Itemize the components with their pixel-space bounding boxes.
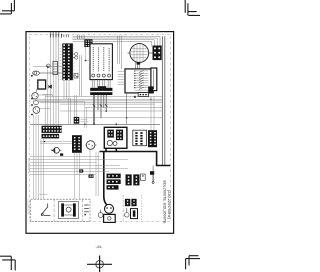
fuse F1 flag [150, 171, 154, 183]
dashed line right sub [141, 195, 143, 220]
double feeder wires right side [162, 36, 164, 166]
panel vertical label column 4 [108, 48, 110, 72]
stacked connector CN9 [107, 185, 119, 189]
battery thick cable [100, 148, 171, 204]
relay K1 [36, 80, 45, 92]
wire bundle left vertical [34, 115, 44, 199]
relay K3 [131, 199, 136, 206]
panel vertical label column 1 [92, 47, 94, 72]
ladder slash contacts [139, 70, 144, 89]
regulator box with ladder [125, 69, 153, 93]
engine sub-box label [40, 193, 48, 195]
breather circle E2 [125, 208, 130, 217]
relay K2 [125, 199, 130, 206]
wire horn feed [33, 66, 62, 68]
terminal ladder rows [135, 71, 149, 90]
junction dots on bus [84, 99, 152, 126]
oil pump OP [52, 147, 62, 153]
riser wires to CN6 [151, 96, 154, 130]
crop mark bottom-left [0, 256, 15, 270]
fuel pump FP [104, 204, 116, 222]
svg-text:-44-: -44- [95, 244, 103, 249]
connector CN3 [42, 126, 62, 133]
rectifier narrow box [148, 68, 157, 93]
ignition coil T1 [59, 202, 79, 219]
wire mesh center horizontal [33, 95, 162, 124]
wire harness CN1 to right (nested L runs) [73, 36, 161, 46]
crop mark top-right [185, 0, 200, 15]
inline connector a [79, 169, 83, 172]
module M1 labels [81, 118, 89, 122]
oil switch S1 [41, 204, 51, 216]
connector CN2 [153, 46, 162, 61]
wire pair right of CN1 [80, 55, 82, 96]
wire stubs above relay RY1 [78, 35, 85, 39]
wires near oil pump [40, 141, 72, 144]
wire to fuse F1 [152, 166, 154, 172]
panel vertical label column 3 [103, 47, 105, 72]
wire drops to generator box [118, 36, 122, 69]
svg-text:(230-220V/50Hz): (230-220V/50Hz) [167, 190, 171, 219]
terminal bar TB1 [90, 86, 112, 95]
connector CN5 [72, 135, 82, 153]
wire drops from CN5 [75, 150, 91, 200]
wire labels top [51, 34, 69, 38]
generator drop wires [136, 61, 141, 69]
spark plug SP [84, 205, 89, 215]
inline fuse on harness [60, 153, 63, 155]
wire riser mid [85, 102, 87, 128]
junction node A [47, 66, 49, 68]
stacked connector CN8 [107, 179, 121, 184]
small module M1 [74, 117, 80, 124]
small terminal block under regulator [134, 93, 149, 98]
panel terminal circles [92, 74, 111, 77]
wire drops left of pump [96, 152, 98, 196]
fuse strip FS1 [53, 62, 58, 75]
breaker P2 [31, 101, 38, 106]
lamp L1 [47, 64, 51, 68]
divider dash-dot 2 [81, 200, 83, 221]
connector pair CN11 [133, 174, 139, 185]
fuse holder F2 [131, 209, 138, 219]
long bus wire [30, 123, 160, 125]
wires into regulator from left [118, 72, 125, 85]
pin grid box U3 [133, 130, 147, 146]
U2 connector a [107, 130, 114, 138]
CN1 pin stubs [60, 45, 75, 79]
ground electrode E1 [98, 210, 103, 218]
diagram outer frame [26, 32, 174, 234]
control panel U1 [90, 44, 112, 80]
svg-text:EDL2600WTE: EDL2600WTE [26, 200, 29, 216]
dash-dot line bottom-right [122, 195, 124, 221]
inline connector b [89, 174, 94, 177]
mini terminal box T2 [141, 174, 146, 180]
lead tick marks [93, 105, 108, 107]
hour meter HM [85, 141, 97, 150]
starter unit box U2 [104, 127, 127, 148]
connector CN4 [42, 134, 60, 139]
relay module RY1 [84, 39, 92, 47]
panel lead stubs [92, 80, 110, 88]
breaker P1 [31, 93, 38, 100]
wire node B drop [85, 47, 87, 61]
crop mark top-left [0, 0, 14, 14]
diode D1 [49, 85, 52, 88]
micro switch MS [74, 74, 78, 79]
connector CN1 [62, 43, 73, 80]
wires below CN1 [64, 80, 69, 99]
indicator lamps right of CN1 [73, 52, 78, 59]
divider dash-dot [53, 200, 55, 221]
connector pair CN10 [126, 174, 132, 185]
horn H1 [31, 71, 62, 77]
wire bundle top-left vertical [45, 38, 59, 126]
panel vertical label column 2 [98, 48, 100, 72]
wire riser right of regulator [126, 93, 128, 124]
ladder left pin dots [134, 70, 135, 88]
U2 connector b [116, 130, 123, 141]
junction node B [85, 60, 87, 62]
U2 coils [107, 140, 112, 145]
breaker P3 [31, 107, 40, 116]
registration crosshair bottom-center [87, 256, 112, 272]
svg-text:EDL2000WTE: EDL2000WTE [27, 158, 30, 174]
svg-text:EDL2000TE, EDL2600TE: EDL2000TE, EDL2600TE [162, 181, 166, 225]
dashed engine sub-box [31, 199, 90, 221]
connector CN6 [148, 130, 157, 147]
wire mesh lower horizontal [30, 157, 128, 175]
inner dash-dot border [29, 34, 170, 221]
leads below TB1 [94, 95, 106, 124]
crop mark bottom-right [186, 256, 200, 270]
stacked connector CN7 [107, 174, 121, 179]
generator G1 [128, 44, 153, 63]
breaker output wires [38, 94, 85, 108]
